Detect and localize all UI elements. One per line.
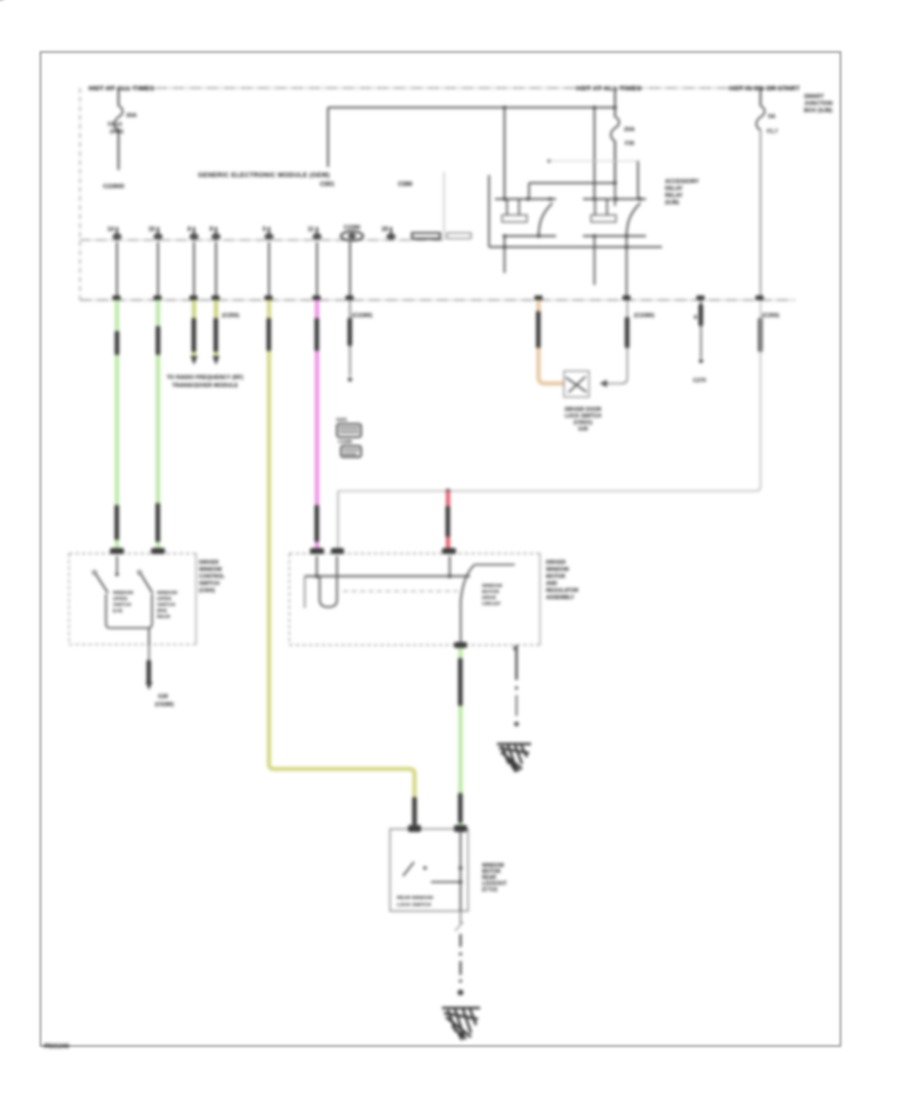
svg-text:SWITCH: SWITCH: [113, 602, 132, 607]
svg-text:WINDOW: WINDOW: [199, 567, 222, 573]
svg-text:(LH): (LH): [113, 608, 123, 613]
svg-text:REGULATOR: REGULATOR: [546, 588, 579, 594]
svg-text:30A: 30A: [126, 113, 137, 119]
svg-text:(C2280): (C2280): [352, 313, 372, 319]
svg-text:SMART: SMART: [804, 94, 824, 100]
svg-text:C2280: C2280: [338, 439, 352, 445]
svg-text:(C5021): (C5021): [574, 420, 593, 426]
svg-text:15: 15: [148, 227, 155, 233]
svg-text:PD21243: PD21243: [44, 1044, 70, 1050]
svg-text:DRIVER: DRIVER: [546, 560, 566, 566]
svg-text:14: 14: [107, 227, 114, 233]
svg-text:BOX (SJB): BOX (SJB): [804, 108, 832, 114]
svg-text:HOT AT ALL TIMES: HOT AT ALL TIMES: [89, 86, 155, 93]
svg-text:WINDOW: WINDOW: [482, 583, 503, 588]
svg-text:11: 11: [308, 227, 315, 233]
svg-text:WINDOW: WINDOW: [113, 590, 134, 595]
svg-text:HOT AT ALL TIMES: HOT AT ALL TIMES: [576, 86, 642, 93]
svg-text:DELAY: DELAY: [665, 186, 683, 192]
svg-text:CIRCUIT: CIRCUIT: [482, 601, 501, 606]
svg-text:(SJB): (SJB): [665, 200, 679, 206]
svg-text:WINDOW: WINDOW: [157, 590, 178, 595]
svg-text:SWITCH: SWITCH: [157, 602, 176, 607]
svg-text:C270: C270: [693, 378, 706, 384]
svg-text:UP/DN: UP/DN: [113, 596, 128, 601]
svg-text:C501: C501: [320, 182, 335, 188]
svg-text:(C250): (C250): [762, 313, 779, 319]
svg-text:8: 8: [694, 315, 697, 321]
svg-text:SWITCH: SWITCH: [199, 581, 220, 587]
svg-text:REAR WINDOW: REAR WINDOW: [397, 895, 433, 901]
svg-text:(C712): (C712): [482, 887, 498, 893]
svg-text:S201: S201: [336, 417, 348, 423]
svg-text:TRANSCEIVER MODULE: TRANSCEIVER MODULE: [172, 383, 238, 389]
svg-text:JUNCTION: JUNCTION: [804, 101, 833, 107]
svg-text:C2280D: C2280D: [103, 184, 124, 190]
svg-text:F35: F35: [625, 141, 634, 147]
svg-text:19: 19: [381, 227, 388, 233]
svg-text:UP/DN: UP/DN: [157, 596, 172, 601]
svg-text:WINDOW: WINDOW: [546, 567, 569, 573]
svg-text:LOCK SWITCH: LOCK SWITCH: [397, 902, 431, 908]
svg-text:G28: G28: [158, 694, 168, 700]
svg-text:5A: 5A: [768, 114, 776, 120]
svg-text:F2.13: F2.13: [108, 122, 122, 128]
svg-text:DRIVER DOOR: DRIVER DOOR: [565, 407, 602, 413]
svg-text:ASSEMBLY: ASSEMBLY: [546, 595, 575, 601]
svg-text:TO RADIO FREQUENCY (RF): TO RADIO FREQUENCY (RF): [167, 375, 244, 381]
svg-text:LOCK SWITCH: LOCK SWITCH: [565, 414, 602, 420]
svg-text:(30A): (30A): [110, 129, 124, 135]
svg-text:C590: C590: [398, 182, 413, 188]
svg-text:(C250): (C250): [222, 313, 239, 319]
svg-text:(C2280): (C2280): [634, 313, 654, 319]
svg-text:RELAY: RELAY: [665, 193, 683, 199]
svg-text:MOTOR: MOTOR: [546, 574, 565, 580]
svg-text:C2280: C2280: [344, 225, 360, 231]
svg-text:(C5280): (C5280): [155, 702, 174, 708]
svg-text:CONTROL: CONTROL: [199, 574, 225, 580]
svg-text:REAR: REAR: [157, 614, 171, 619]
svg-text:G30: G30: [578, 427, 588, 433]
svg-text:(RH): (RH): [157, 608, 167, 613]
svg-text:DRIVER: DRIVER: [199, 560, 219, 566]
svg-text:HOT IN ON OR START: HOT IN ON OR START: [729, 86, 800, 93]
svg-text:DRIVE: DRIVE: [482, 595, 496, 600]
svg-text:GENERIC ELECTRONIC MODULE (GEM: GENERIC ELECTRONIC MODULE (GEM): [198, 172, 330, 179]
svg-text:AND: AND: [546, 581, 557, 587]
svg-text:F1.7: F1.7: [767, 129, 778, 135]
svg-text:ACCESSORY: ACCESSORY: [665, 179, 699, 185]
svg-text:MOTOR: MOTOR: [482, 589, 500, 594]
svg-text:20A: 20A: [624, 127, 635, 133]
svg-text:(C503): (C503): [199, 588, 215, 594]
